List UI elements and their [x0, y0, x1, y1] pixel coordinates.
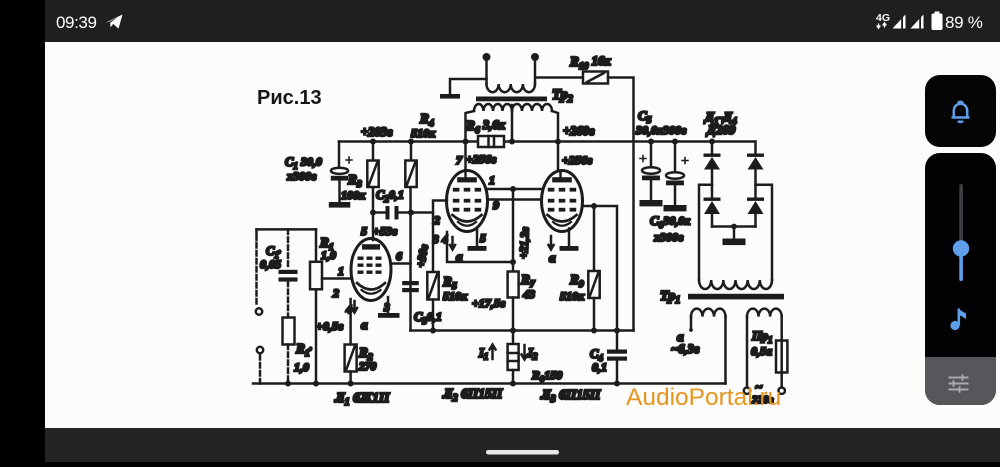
- tube L2 cathode: [453, 215, 482, 222]
- wire C2 to grid L2: [433, 201, 447, 273]
- feedback line: [411, 329, 634, 332]
- tube L1 grids: [358, 257, 364, 260]
- bell icon: [952, 102, 970, 122]
- svg-text:43: 43: [522, 287, 535, 301]
- svg-text:4: 4: [345, 304, 352, 316]
- tube L1 anode: [362, 244, 380, 249]
- svg-text:1: 1: [489, 173, 495, 187]
- bridge right column: [754, 142, 757, 227]
- output terminal dot 1: [483, 53, 491, 61]
- input terminal 2: [257, 347, 263, 353]
- resistor R7: [508, 272, 519, 298]
- junction anode L2 at bus: [463, 139, 469, 145]
- wire L2-L3 pin1: [488, 188, 542, 191]
- resistor R1: [315, 229, 318, 383]
- ground bus: [253, 382, 726, 385]
- resistor R5: [427, 272, 438, 300]
- wire common cathode node down: [512, 189, 515, 272]
- equalizer icon: [949, 374, 969, 392]
- tube L1 cathode: [357, 283, 385, 290]
- ground (C1): [329, 202, 351, 208]
- tube L3 cathode: [548, 215, 577, 222]
- resistor R9: [593, 206, 596, 271]
- Tp1 6.3v winding: [691, 309, 726, 317]
- svg-text:+0,5в: +0,5в: [316, 319, 344, 333]
- resistor R6: [478, 136, 504, 147]
- cathode ground L2: [476, 229, 479, 247]
- signal triangle 2: [911, 15, 924, 29]
- svg-text:1,0: 1,0: [321, 248, 336, 262]
- transformer Tp2 core: [476, 97, 547, 102]
- wire R10 to feedback drop: [608, 78, 634, 331]
- battery icon: [935, 12, 940, 15]
- ground (output): [440, 94, 460, 99]
- diode D3: [704, 198, 721, 201]
- volume slider panel: [925, 153, 996, 405]
- capacitor C3: [402, 281, 419, 285]
- fuse Пр1: [780, 317, 783, 373]
- transformer Tp2 primary winding: [474, 104, 512, 111]
- svg-text:2: 2: [332, 286, 339, 300]
- wire + ground (L1): [387, 297, 390, 313]
- svg-text:+203в: +203в: [361, 125, 393, 139]
- svg-text:9: 9: [493, 198, 499, 212]
- svg-text:510к: 510к: [411, 126, 436, 140]
- svg-text:100к: 100к: [341, 188, 366, 202]
- svg-text:7: 7: [456, 153, 463, 167]
- bridge AC tap right: [756, 185, 773, 280]
- bottom navigation bar: [45, 428, 1000, 462]
- diode D4: [747, 198, 764, 201]
- svg-text:+256в: +256в: [562, 153, 593, 167]
- heater arrow L1: [352, 301, 357, 313]
- slider thumb: [953, 240, 969, 256]
- tube L1 envelope: [351, 239, 391, 301]
- capacitor C2: [373, 211, 433, 214]
- svg-text:09:39: 09:39: [56, 13, 97, 32]
- status bar: [45, 0, 1000, 42]
- wire Tp2 center tap to bus: [511, 105, 514, 142]
- wire terminal2 to winding: [535, 57, 583, 84]
- svg-text:1: 1: [338, 264, 344, 278]
- resistor R1prim: [283, 318, 295, 345]
- wire L3 pin to C4: [583, 206, 617, 350]
- svg-text:R8150: R8150: [531, 368, 562, 384]
- svg-text:~6,3в: ~6,3в: [671, 342, 700, 356]
- heater arrow L3: [548, 236, 553, 250]
- svg-text:0,1: 0,1: [592, 360, 607, 374]
- svg-text:4: 4: [441, 234, 448, 246]
- svg-text:AudioPortal.ru: AudioPortal.ru: [626, 384, 781, 411]
- slider track: [959, 184, 963, 248]
- svg-text:х300в: х300в: [653, 230, 684, 244]
- svg-text:a: a: [361, 317, 368, 332]
- bridge left column: [711, 142, 714, 227]
- panel gray bottom section: [925, 357, 996, 405]
- heater arrow L2: [450, 237, 455, 250]
- svg-text:510к: 510к: [560, 289, 585, 303]
- svg-text:3: 3: [432, 234, 439, 246]
- svg-text:6: 6: [396, 249, 402, 263]
- telegram notification icon: [106, 15, 123, 29]
- wire L2-L3 pin9: [488, 198, 542, 201]
- bridge bottom wire: [712, 225, 756, 228]
- signal triangle 1: [893, 15, 906, 29]
- Tp1 core: [688, 294, 784, 300]
- transformer Tp2 secondary winding: [487, 84, 535, 92]
- cathode ground L3: [568, 229, 571, 247]
- notification bell panel: [925, 75, 996, 147]
- tube L3 anode: [552, 177, 572, 182]
- svg-text:0,5а: 0,5а: [751, 344, 772, 358]
- wire output to ground: [450, 79, 487, 94]
- tube L2 grids: [453, 188, 460, 192]
- wire anode L1: [372, 213, 375, 241]
- tube L3 envelope: [542, 171, 583, 232]
- mains terminal 1: [744, 388, 750, 394]
- junction center tap: [509, 139, 515, 145]
- svg-text:+53в: +53в: [373, 224, 398, 238]
- resistor R3: [372, 142, 375, 213]
- slider fill: [959, 247, 963, 281]
- resistor R2: [345, 345, 357, 372]
- svg-text:Д209: Д209: [706, 122, 736, 137]
- Tp1 mains winding: [747, 309, 782, 317]
- diode D2: [747, 154, 764, 157]
- svg-text:5: 5: [361, 224, 367, 238]
- output terminal dot 2: [531, 53, 539, 61]
- capacitor C1 lead: [338, 142, 341, 168]
- resistor R8: [512, 331, 515, 345]
- junction anode L3 at bus: [555, 139, 561, 145]
- music note icon: [950, 309, 966, 331]
- svg-text:Рис.13: Рис.13: [257, 87, 322, 109]
- svg-text:a: a: [549, 250, 556, 265]
- +203v / +260v supply bus: [339, 140, 755, 143]
- svg-text:a: a: [456, 249, 463, 264]
- capacitor C4: [607, 350, 627, 354]
- bridge ground: [733, 227, 736, 239]
- capacitor C1prim dashed branch: [287, 229, 290, 269]
- diode D1: [704, 154, 721, 157]
- svg-text:+256в: +256в: [466, 152, 497, 166]
- bridge AC tap left: [699, 185, 712, 280]
- left camera cutout strip: [0, 0, 45, 462]
- svg-text:+260в: +260в: [563, 124, 595, 138]
- tube L2 envelope: [447, 171, 488, 232]
- wire Tp2 left end to tube L2 anode: [466, 111, 475, 171]
- home indicator: [486, 450, 559, 455]
- resistor R10: [583, 72, 608, 84]
- svg-text:+17,5в: +17,5в: [472, 296, 506, 310]
- plus mark C1: [346, 157, 352, 163]
- svg-text:30,0х300в: 30,0х300в: [635, 123, 687, 137]
- input top wire: [257, 228, 317, 231]
- tube L2 anode: [457, 177, 477, 182]
- current arrow I1: [490, 345, 496, 360]
- svg-text:х300в: х300в: [286, 169, 317, 183]
- resistor R4: [409, 142, 412, 331]
- input shield dashed + terminal 1: [255, 229, 258, 240]
- svg-text:+21,2в: +21,2в: [518, 227, 532, 259]
- svg-text:4G: 4G: [876, 12, 890, 24]
- svg-text:5: 5: [480, 233, 486, 245]
- capacitor C1: [331, 168, 348, 174]
- capacitor C6: [674, 142, 677, 173]
- heater wire L2: [447, 232, 513, 262]
- Tp1 HV winding: [699, 280, 772, 289]
- svg-text:89 %: 89 %: [945, 13, 983, 32]
- svg-text:510к: 510к: [443, 289, 468, 303]
- wire Tp2 right end to tube L3 anode: [552, 111, 558, 171]
- wire grid L1: [322, 277, 351, 280]
- wire terminal1 to winding: [485, 57, 488, 84]
- wire screen L1 (pin 6): [391, 262, 411, 265]
- tube L3 grids: [548, 188, 555, 192]
- svg-text:2: 2: [433, 213, 440, 227]
- capacitor C5: [650, 142, 653, 168]
- svg-text:0,05: 0,05: [260, 257, 281, 271]
- current arrow I2: [522, 345, 528, 360]
- svg-text:1,0: 1,0: [294, 360, 309, 374]
- svg-text:270: 270: [358, 361, 377, 373]
- wire cathode L1 to R2: [349, 299, 352, 345]
- mains terminal 2: [779, 388, 785, 394]
